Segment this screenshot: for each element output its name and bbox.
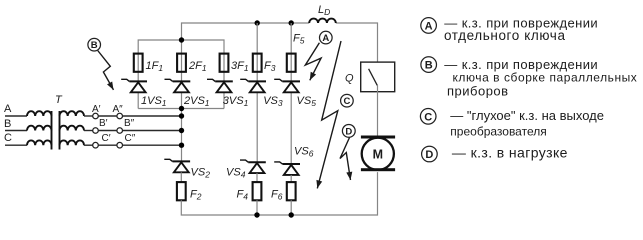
svg-text:F6: F6: [271, 189, 283, 202]
wire: switch to motor: [377, 85, 379, 135]
svg-text:B″: B″: [124, 118, 135, 129]
switch Q box: [361, 62, 395, 92]
svg-text:отдельного ключа: отдельного ключа: [444, 28, 566, 43]
fuse 3F1: [220, 54, 229, 72]
svg-text:B: B: [425, 60, 433, 72]
wire VS2 to F2: [180, 172, 182, 182]
fault marker circle D: [342, 124, 355, 137]
fuse F3: [253, 54, 262, 72]
terminal C': [93, 142, 99, 148]
arrowhead bolt B: [107, 82, 114, 90]
legend circle D: [422, 146, 438, 162]
wire: paralleling mini-bus over 1F1 2F1 3F1: [138, 40, 224, 53]
link A'-A'': [98, 115, 117, 117]
fault marker circle A: [320, 31, 333, 44]
svg-text:Q: Q: [345, 73, 354, 85]
wire: bottom bus: [181, 172, 377, 215]
wire: top DC bus: [182, 23, 310, 40]
fault bolt D: [340, 138, 351, 181]
fault marker circle C: [341, 94, 354, 107]
wire: 1VS1 branch vertical: [137, 53, 139, 109]
svg-text:A′: A′: [92, 104, 101, 115]
wire phase C input: [5, 144, 27, 146]
wire: F3/VS3/VS4/F4 branch vertical: [256, 23, 258, 162]
terminal B': [93, 128, 99, 134]
fuse 2F1: [177, 54, 186, 72]
svg-text:B′: B′: [99, 118, 108, 129]
legend circle A: [421, 18, 437, 34]
core line left: [51, 111, 53, 150]
junction dot phase A: [179, 113, 184, 118]
thyristor VS5: [274, 79, 300, 92]
svg-text:C″: C″: [125, 133, 136, 144]
svg-text:— к.з. в нагрузке: — к.з. в нагрузке: [452, 145, 568, 161]
wire phase B input: [5, 130, 27, 132]
wire: F4 to bottom bus: [256, 200, 258, 215]
arrowhead bolt D: [346, 172, 352, 180]
svg-text:3F1: 3F1: [231, 60, 249, 73]
wire: F6 to bottom bus: [290, 200, 292, 215]
fuse F5: [287, 54, 296, 72]
wire phase C to column: [123, 144, 182, 146]
thyristor VS3: [240, 79, 266, 92]
wire VS6 to F6: [290, 175, 292, 182]
junction dot bottom bus at F6: [289, 212, 294, 217]
fault bolt A: [305, 43, 321, 81]
fuse F6: [287, 182, 296, 200]
svg-text:B: B: [4, 118, 11, 130]
primary winding C: [27, 140, 52, 145]
svg-text:A: A: [425, 20, 433, 32]
svg-text:A: A: [4, 103, 12, 115]
secondary winding C: [60, 140, 85, 145]
svg-text:LD: LD: [318, 4, 330, 17]
junction dot top bus at F5: [289, 20, 294, 25]
svg-text:F4: F4: [237, 189, 249, 202]
wire VS4 to F4: [256, 173, 258, 182]
svg-text:B: B: [91, 40, 98, 51]
fuse F2: [177, 182, 186, 200]
wire: 2VS1 / phase column vertical: [181, 53, 183, 162]
thyristor 1VS1: [121, 79, 147, 92]
svg-text:F2: F2: [190, 189, 202, 202]
thyristor VS6: [274, 162, 300, 175]
wire: 3VS1 branch vertical: [223, 53, 225, 109]
fault marker circle B: [88, 38, 101, 51]
junction dot top bus at F3: [255, 20, 260, 25]
secondary winding A: [60, 111, 85, 116]
primary winding A: [27, 111, 52, 116]
svg-text:VS4: VS4: [226, 167, 246, 180]
svg-text:M: M: [373, 147, 383, 161]
motor M bottom brush bar: [361, 168, 395, 171]
fault bolt C: [317, 41, 341, 188]
svg-text:VS2: VS2: [191, 167, 211, 180]
thyristor 2VS1: [165, 79, 191, 92]
svg-text:1VS1: 1VS1: [141, 95, 167, 108]
arrowhead bolt A: [310, 72, 316, 81]
junction dot mini-bus at 2F1: [179, 37, 184, 42]
thyristor 3VS1: [207, 79, 233, 92]
terminal A': [93, 113, 99, 119]
wire phase A to column: [123, 115, 182, 117]
inductor LD: [309, 19, 336, 23]
legend circle B: [421, 57, 437, 73]
wire secondary B to terminal: [84, 130, 93, 132]
core line right: [59, 111, 61, 150]
svg-text:VS3: VS3: [263, 95, 283, 108]
fuse 1F1: [134, 54, 143, 72]
terminal B'': [117, 128, 123, 134]
junction dot cathode bus at 2VS1: [179, 106, 184, 111]
svg-text:A″: A″: [113, 104, 124, 115]
svg-text:2VS1: 2VS1: [183, 95, 210, 108]
svg-text:3VS1: 3VS1: [223, 95, 249, 108]
terminal C'': [117, 142, 123, 148]
svg-text:T: T: [55, 94, 63, 106]
wire phase A input: [5, 115, 27, 117]
wire secondary C to terminal: [84, 144, 93, 146]
junction dot bottom bus at F4: [254, 212, 259, 217]
junction dot phase C: [179, 143, 184, 148]
svg-text:C: C: [4, 132, 12, 144]
junction dot phase B: [179, 128, 184, 133]
fault bolt B: [98, 51, 114, 90]
svg-text:VS5: VS5: [297, 95, 317, 108]
svg-text:F3: F3: [264, 60, 276, 73]
link C'-C'': [98, 144, 117, 146]
secondary winding B: [60, 126, 85, 131]
thyristor VS4: [240, 160, 266, 173]
svg-text:VS6: VS6: [294, 146, 314, 159]
link B'-B'': [98, 130, 117, 132]
svg-text:C: C: [343, 96, 350, 107]
svg-text:C: C: [424, 111, 432, 123]
svg-text:ключа в сборке параллельных: ключа в сборке параллельных: [453, 70, 638, 84]
svg-text:преобразователя: преобразователя: [450, 125, 546, 139]
svg-text:— "глухое" к.з. на выходе: — "глухое" к.з. на выходе: [450, 108, 604, 123]
fuse F4: [253, 182, 262, 200]
svg-text:приборов: приборов: [447, 83, 509, 98]
wire secondary A to terminal: [84, 115, 93, 117]
primary winding B: [27, 126, 52, 131]
legend circle C: [420, 109, 436, 125]
arrowhead bolt C: [316, 180, 322, 189]
thyristor VS2: [164, 159, 190, 172]
wire phase B to column: [123, 130, 182, 132]
svg-text:1F1: 1F1: [146, 60, 164, 73]
terminal A'': [117, 113, 123, 119]
svg-text:A: A: [322, 33, 329, 44]
wire: F5/VS5/VS6/F6 branch vertical: [290, 23, 292, 164]
svg-text:F5: F5: [293, 33, 305, 46]
motor M armature circle: [362, 138, 394, 170]
svg-text:C′: C′: [102, 133, 111, 144]
wire: bus joining cathodes of 1VS1 2VS1 3VS1: [138, 108, 224, 110]
motor M top brush bar: [361, 136, 395, 139]
svg-text:2F1: 2F1: [188, 60, 207, 73]
switch Q blade: [369, 69, 378, 86]
svg-text:D: D: [345, 126, 352, 137]
svg-text:D: D: [425, 149, 433, 161]
wire: 2F1 riser: [181, 40, 183, 53]
wire: top bus after inductor to right corner and down to switch Q: [336, 23, 378, 67]
